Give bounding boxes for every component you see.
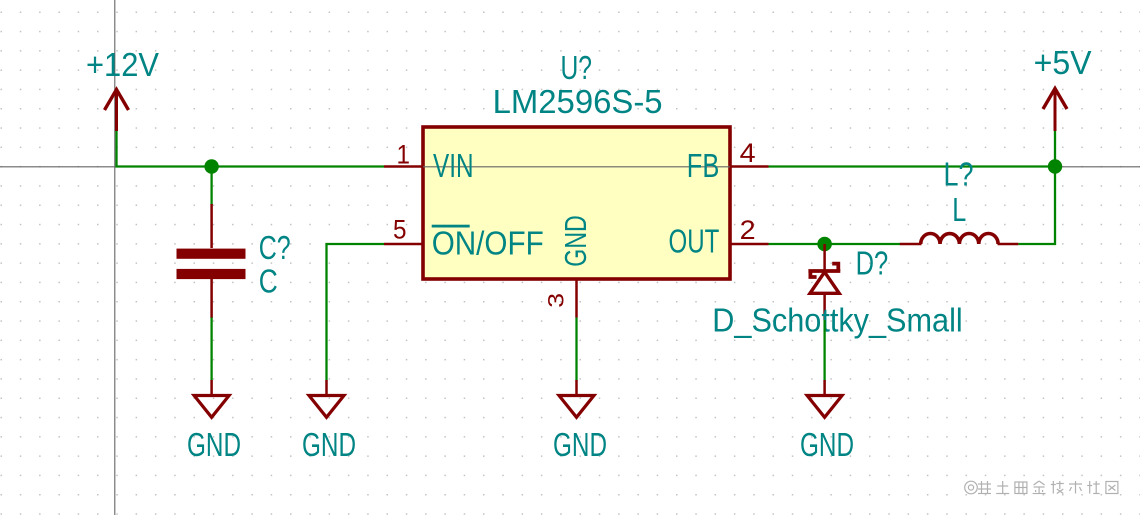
sheet axis horizontal line xyxy=(0,166,1140,168)
wire +5V drop xyxy=(1054,130,1056,167)
svg-text:1: 1 xyxy=(397,140,411,170)
svg-text:U?: U? xyxy=(561,50,593,87)
svg-text:5: 5 xyxy=(393,215,407,245)
wire inductor to +5V rail xyxy=(1018,167,1055,245)
svg-text:GND: GND xyxy=(187,427,241,464)
op-amp U1 body (IC LM2596S-5) xyxy=(423,127,730,279)
svg-text:C: C xyxy=(259,263,278,300)
wire FB to +5V rail xyxy=(769,165,1056,167)
capacitor C1 xyxy=(177,204,246,318)
sheet axis vertical line xyxy=(114,0,116,515)
wire ON/OFF to ground xyxy=(327,244,385,381)
pin 2 OUT xyxy=(730,243,769,246)
svg-text:GND: GND xyxy=(800,427,854,464)
inductor L1 xyxy=(900,234,1019,244)
svg-text:L: L xyxy=(952,192,966,229)
wire capacitor to ground xyxy=(210,318,212,381)
ground under ON/OFF wire xyxy=(309,380,344,417)
node junction at +5V xyxy=(1048,159,1062,173)
svg-text:4: 4 xyxy=(740,138,756,168)
pin 4 FB xyxy=(730,165,769,168)
node junction at capacitor tap xyxy=(204,159,218,173)
pin 5 ON/OFF xyxy=(384,243,423,246)
pin 1 VIN xyxy=(384,165,423,168)
svg-text:2: 2 xyxy=(740,215,756,245)
diode D1 (Schottky) xyxy=(808,244,840,320)
node junction at diode xyxy=(817,237,832,252)
svg-text:GND: GND xyxy=(558,215,593,267)
ground under capacitor xyxy=(194,380,229,417)
svg-text:VIN: VIN xyxy=(433,148,474,185)
svg-text:GND: GND xyxy=(553,427,607,464)
svg-text:OUT: OUT xyxy=(669,224,720,261)
svg-text:FB: FB xyxy=(687,148,720,185)
wire +12V rail to pin 1 xyxy=(117,130,385,167)
watermark xyxy=(965,481,1118,494)
svg-text:LM2596S-5: LM2596S-5 xyxy=(493,84,663,121)
svg-text:3: 3 xyxy=(544,293,569,308)
power symbol +5V xyxy=(1043,88,1067,131)
svg-text:D?: D? xyxy=(856,246,889,283)
svg-text:ON/OFF: ON/OFF xyxy=(432,226,544,263)
ground under pin 3 xyxy=(559,380,594,417)
wire OUT to inductor xyxy=(769,243,901,245)
svg-text:D_Schottky_Small: D_Schottky_Small xyxy=(712,303,962,340)
svg-text:+5V: +5V xyxy=(1034,45,1093,82)
pin 3 GND (bottom) xyxy=(575,279,578,318)
ground under diode xyxy=(807,380,842,417)
svg-text:+12V: +12V xyxy=(86,47,160,84)
svg-text:C?: C? xyxy=(259,230,291,267)
svg-text:GND: GND xyxy=(302,427,356,464)
svg-text:L?: L? xyxy=(944,157,974,194)
wire pin3 to ground xyxy=(575,318,577,381)
wire junction to capacitor xyxy=(210,167,212,206)
wire diode to ground xyxy=(823,320,825,381)
power symbol +12V xyxy=(105,89,129,131)
